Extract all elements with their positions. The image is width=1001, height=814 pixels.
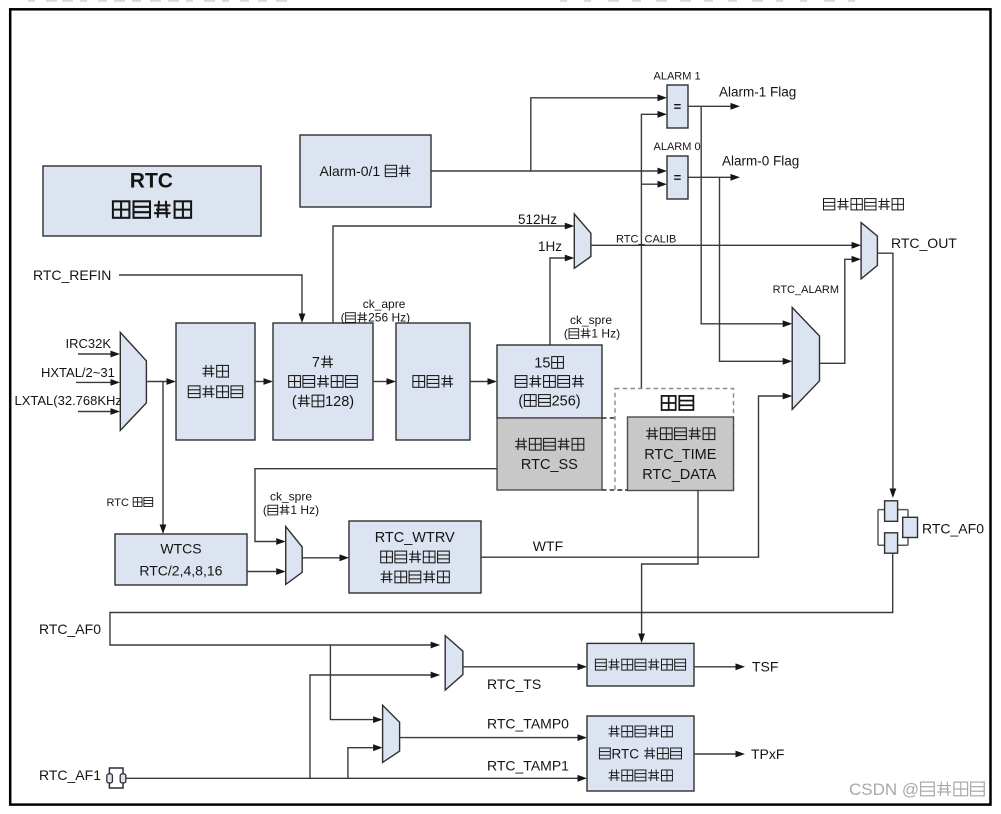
svg-text:256): 256) bbox=[552, 394, 581, 410]
block 时间戳控制逻辑 (timestamp control logic) bbox=[587, 643, 694, 686]
wire TSF output bbox=[694, 663, 745, 670]
label IRC32K bbox=[66, 336, 112, 351]
wire Alarm-0/1 logic output to ALARM 0 comparator input A bbox=[431, 168, 667, 175]
wire LXTAL into input mux bbox=[78, 408, 120, 415]
svg-text:RTC_SS: RTC_SS bbox=[521, 457, 578, 473]
title box RTC 结构框图 bbox=[43, 166, 261, 236]
label ck_spre (upper) bbox=[570, 313, 612, 327]
wire RTC_TAMP0 from tamper mux to backup logic bbox=[400, 734, 587, 741]
wire clock mux output to digital smooth calibration bbox=[146, 378, 176, 385]
svg-text:RTC_ALARM: RTC_ALARM bbox=[773, 284, 839, 296]
svg-text:RTC_OUT: RTC_OUT bbox=[891, 235, 957, 251]
pad symbol RTC_AF0 (pin structure) bbox=[878, 501, 918, 553]
wire calendar value to comparator B inputs (vertical) bbox=[641, 111, 667, 389]
svg-text:RTC_TIME: RTC_TIME bbox=[644, 447, 717, 463]
svg-text:ck_spre: ck_spre bbox=[270, 490, 312, 504]
svg-text:ck_spre: ck_spre bbox=[570, 313, 612, 327]
wire output select mux to RTC_AF0 pad bbox=[877, 253, 896, 498]
svg-text:RTC_TAMP1: RTC_TAMP1 bbox=[487, 757, 569, 773]
label ALARM 1 bbox=[654, 70, 701, 82]
label (默认 256 Hz) bbox=[341, 311, 411, 325]
label RTC_AF0 (right pad) bbox=[922, 520, 984, 536]
svg-text:RTC: RTC bbox=[612, 746, 640, 761]
wire RTC_AF1 branch up to timestamp mux input 2 bbox=[310, 672, 440, 779]
svg-text:RTC_AF0: RTC_AF0 bbox=[922, 520, 984, 536]
label 日历 (calendar title) bbox=[662, 396, 694, 410]
mux RTC_TS select bbox=[445, 636, 463, 691]
wire WTCS output to WTCS mux input 2 bbox=[247, 568, 286, 575]
wire RTC_AF0 branch down to tamper mux input 1 bbox=[330, 645, 382, 723]
svg-text:RTC_TS: RTC_TS bbox=[487, 676, 541, 692]
svg-text:Alarm-0/1: Alarm-0/1 bbox=[320, 163, 381, 179]
svg-text:ck_apre: ck_apre bbox=[363, 297, 406, 311]
svg-text:1 Hz): 1 Hz) bbox=[591, 327, 620, 341]
block 15位同步预分频 (15-bit sync prescaler, 默认256) bbox=[497, 345, 602, 418]
mux clock source select bbox=[120, 332, 146, 430]
svg-text:RTC_CALIB: RTC_CALIB bbox=[616, 233, 676, 245]
block RTC_WTRV 自动重加载唤醒定时器 bbox=[349, 521, 481, 593]
label Alarm-1 Flag bbox=[719, 84, 796, 99]
svg-text:RTC_DATA: RTC_DATA bbox=[642, 467, 716, 483]
svg-text:RTC_AF1: RTC_AF1 bbox=[39, 767, 101, 783]
wire branch up to ALARM 1 comparator input A bbox=[531, 94, 667, 171]
svg-text:Alarm-1 Flag: Alarm-1 Flag bbox=[719, 84, 796, 99]
wire TPxF output bbox=[694, 751, 745, 758]
block Alarm-0/1 逻辑 bbox=[300, 135, 431, 207]
label RTC_TAMP1 bbox=[487, 757, 569, 773]
label RTC_AF0 (left) bbox=[39, 621, 101, 637]
mux 512Hz/1Hz calibration output select bbox=[574, 214, 591, 268]
wire WTCS mux output to RTC_WTRV bbox=[302, 554, 349, 561]
svg-text:CSDN @: CSDN @ bbox=[849, 780, 919, 799]
svg-text:RTC_REFIN: RTC_REFIN bbox=[33, 267, 111, 283]
svg-text:RTC: RTC bbox=[130, 169, 173, 192]
label 输出选择逻辑 (output select logic) bbox=[824, 198, 904, 210]
svg-text:TPxF: TPxF bbox=[751, 746, 784, 762]
svg-text:128): 128) bbox=[325, 394, 354, 410]
comparator ALARM 0 bbox=[667, 156, 688, 199]
wire ALARM 0 output to Alarm-0 Flag bbox=[688, 174, 740, 181]
wire stub to ALARM 0 comparator input B bbox=[641, 181, 667, 188]
svg-text:(: ( bbox=[564, 327, 568, 341]
svg-text:(: ( bbox=[341, 311, 345, 325]
pad symbol RTC_AF1 (pin structure) bbox=[107, 768, 126, 788]
label WTF bbox=[533, 538, 563, 554]
wire RTC clock tap down to WTCS bbox=[160, 382, 167, 535]
svg-text:=: = bbox=[674, 99, 682, 114]
svg-text:(: ( bbox=[263, 503, 267, 517]
svg-text:ALARM 1: ALARM 1 bbox=[654, 70, 701, 82]
svg-text:=: = bbox=[674, 170, 682, 185]
svg-text:1 Hz): 1 Hz) bbox=[290, 503, 319, 517]
wire calendar output down to timestamp logic bbox=[638, 491, 698, 644]
wire RTC_AF1 net to backup/tamper logic input RTC_TAMP1 bbox=[126, 775, 587, 782]
wire Alarm-1 flag down to RTC_ALARM mux input 1 bbox=[701, 106, 792, 327]
wire Alarm-0 flag down to RTC_ALARM mux input 2 bbox=[720, 177, 793, 364]
wire 7-bit prescaler to coarse calibration bbox=[373, 378, 396, 385]
label (默认1 Hz) (left) bbox=[263, 503, 319, 517]
label RTC_TAMP0 bbox=[487, 715, 569, 731]
wire ck_spre from shadow register to WTCS mux input 1 bbox=[255, 469, 497, 545]
svg-text:ALARM 0: ALARM 0 bbox=[654, 141, 701, 153]
wire ALARM 1 output to Alarm-1 Flag bbox=[688, 103, 740, 110]
block 影子寄存器 RTC_SS (shadow register) bbox=[497, 418, 602, 490]
svg-text:WTF: WTF bbox=[533, 538, 563, 554]
block 7位异步预分频 (7-bit async prescaler, 默认128) bbox=[273, 323, 373, 440]
svg-text:HXTAL/2~31: HXTAL/2~31 bbox=[41, 365, 115, 380]
wire WTF from RTC_WTRV to RTC_ALARM mux input 3 bbox=[481, 393, 792, 558]
svg-text:WTCS: WTCS bbox=[160, 540, 201, 556]
label 1Hz bbox=[538, 239, 562, 254]
cropped caption text remnants at top edge bbox=[28, 0, 855, 2]
wire HXTAL into input mux bbox=[76, 379, 120, 386]
label (默认1 Hz) (upper) bbox=[564, 327, 620, 341]
wire 1Hz tap from sync prescaler to calib mux bbox=[550, 255, 574, 345]
svg-text:(: ( bbox=[518, 394, 523, 410]
label TSF bbox=[752, 659, 778, 675]
dashed connector shadow-register to calendar bbox=[602, 418, 628, 490]
comparator ALARM 1 bbox=[667, 85, 688, 128]
label RTC_AF1 bbox=[39, 767, 101, 783]
label 512Hz bbox=[518, 212, 557, 227]
svg-text:RTC_TAMP0: RTC_TAMP0 bbox=[487, 715, 569, 731]
svg-text:RTC/2,4,8,16: RTC/2,4,8,16 bbox=[139, 562, 222, 578]
svg-text:TSF: TSF bbox=[752, 659, 778, 675]
block 粗校准 (coarse calibration) bbox=[396, 323, 470, 440]
svg-text:1Hz: 1Hz bbox=[538, 239, 562, 254]
wire RTC_ALARM mux output up to output select mux input 2 bbox=[820, 256, 862, 363]
svg-text:RTC_WTRV: RTC_WTRV bbox=[375, 530, 455, 546]
block 数字平滑校准 (digital smooth calibration) bbox=[176, 323, 255, 440]
label RTC_CALIB bbox=[616, 233, 676, 245]
svg-text:15: 15 bbox=[534, 356, 550, 372]
label LXTAL(32.768KHz) bbox=[15, 393, 127, 408]
label ALARM 0 bbox=[654, 141, 701, 153]
block WTCS RTC/2,4,8,16 bbox=[115, 534, 247, 585]
label TPxF bbox=[751, 746, 784, 762]
svg-text:LXTAL(32.768KHz): LXTAL(32.768KHz) bbox=[15, 393, 127, 408]
svg-text:RTC: RTC bbox=[107, 497, 129, 509]
mux 输出选择逻辑 RTC_OUT select bbox=[861, 223, 877, 279]
label RTC_ALARM bbox=[773, 284, 839, 296]
svg-text:Alarm-0 Flag: Alarm-0 Flag bbox=[722, 153, 799, 168]
label RTC_REFIN bbox=[33, 267, 111, 283]
wire 512Hz tap from async prescaler to calib mux bbox=[333, 223, 574, 323]
svg-text:IRC32K: IRC32K bbox=[66, 336, 112, 351]
label RTC 时钟 bbox=[107, 497, 153, 509]
label RTC_OUT bbox=[891, 235, 957, 251]
svg-text:RTC_AF0: RTC_AF0 bbox=[39, 621, 101, 637]
mux WTCS clock select bbox=[286, 527, 303, 585]
mux RTC_ALARM select bbox=[792, 308, 819, 410]
wire digital smooth to 7-bit async prescaler bbox=[255, 378, 273, 385]
wire RTC_AF1 branch up to tamper mux input 2 bbox=[348, 744, 383, 778]
block 影子寄存器 RTC_TIME RTC_DATA bbox=[628, 417, 734, 491]
label RTC_TS bbox=[487, 676, 541, 692]
label ck_apre bbox=[363, 297, 406, 311]
svg-text:(: ( bbox=[292, 394, 297, 410]
dashed group 日历 (calendar) bbox=[615, 389, 734, 491]
block 备份寄存器和RTC侵入检测控制逻辑 (backup registers & tamper detect) bbox=[587, 716, 694, 791]
label ck_spre (left) bbox=[270, 490, 312, 504]
wire coarse calibration to 15-bit sync prescaler bbox=[470, 378, 497, 385]
svg-text:512Hz: 512Hz bbox=[518, 212, 557, 227]
label Alarm-0 Flag bbox=[722, 153, 799, 168]
svg-text:7: 7 bbox=[312, 355, 320, 371]
wire RTC_CALIB to output select mux input 1 bbox=[591, 242, 861, 249]
watermark CSDN @马浩同学 bbox=[849, 780, 984, 799]
wire RTC_REFIN to 7-bit async prescaler top bbox=[119, 275, 305, 323]
wire IRC32K into input mux bbox=[78, 351, 120, 358]
mux RTC_TAMP select bbox=[383, 705, 400, 762]
wire RTC_AF0 pad down-left to RTC_AF0 net fork bbox=[110, 553, 893, 648]
label HXTAL/2~31 bbox=[41, 365, 115, 380]
wire RTC_TS mux output to timestamp logic bbox=[463, 663, 587, 670]
